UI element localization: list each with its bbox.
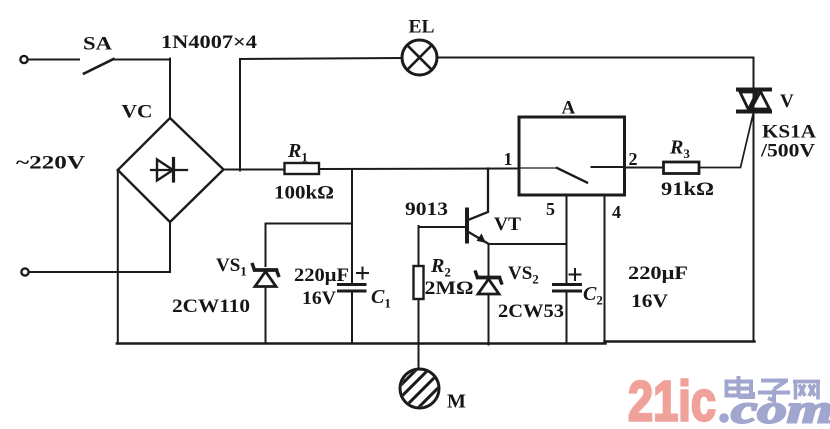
wire VS1 branch down (265, 224, 267, 267)
svg-text:/500V: /500V (760, 141, 815, 162)
svg-text:KS1A: KS1A (762, 122, 816, 143)
wire emitter to pin5 line (489, 243, 567, 245)
watermark com dot (719, 413, 729, 423)
svg-text:2: 2 (629, 149, 638, 169)
wire collector (467, 169, 488, 221)
wire R1 to relay pin1 (319, 168, 519, 171)
svg-text:16V: 16V (631, 291, 668, 312)
wire C2 bottom to bus (566, 292, 568, 344)
svg-text:2CW53: 2CW53 (498, 301, 564, 322)
relay fixed contact lead (592, 166, 624, 168)
watermark chinese 网 (793, 382, 820, 400)
bridge rectifier VC diamond (118, 118, 224, 222)
svg-text:9013: 9013 (405, 199, 448, 220)
svg-text:1: 1 (504, 149, 513, 169)
svg-text:2CW110: 2CW110 (172, 296, 250, 317)
svg-text:EL: EL (409, 17, 435, 38)
wire riser to lamp (240, 58, 402, 59)
wire switch to corner (114, 59, 171, 61)
emitter with arrow (467, 231, 489, 244)
watermark chinese 子 (758, 381, 790, 401)
resistor R1 (285, 163, 320, 174)
wire thyristor cathode down (753, 113, 755, 342)
C1 plus sign (357, 268, 368, 279)
wire EL riser (239, 59, 241, 171)
svg-text:SA: SA (83, 34, 112, 55)
wire emitter down through VS2 (488, 244, 490, 276)
bus right segment (605, 340, 755, 342)
svg-text:16V: 16V (302, 288, 336, 309)
C2 plus sign (570, 269, 581, 280)
relay contact blade (557, 168, 587, 183)
svg-text:VT: VT (494, 214, 521, 235)
resistor R3 (664, 162, 700, 174)
wire lamp to thyristor (438, 58, 754, 89)
wire base (419, 226, 466, 228)
svg-text:~220V: ~220V (16, 153, 85, 174)
svg-text:V: V (780, 91, 794, 112)
switch SA blade (84, 59, 114, 74)
svg-text:M: M (447, 391, 466, 413)
capacitor C1 plates (339, 285, 366, 292)
wire relay pin5 down to C2 top (566, 195, 568, 284)
svg-text:21ic: 21ic (628, 370, 716, 425)
svg-text:91kΩ: 91kΩ (661, 179, 714, 200)
wire down to bridge top (169, 59, 171, 120)
wire VS2 to bus (488, 294, 490, 345)
capacitor C2 plates (554, 285, 581, 292)
lamp EL (402, 40, 437, 75)
wire bridge left vertex down to bus (117, 170, 119, 344)
wire VS1 to bus (265, 287, 267, 344)
wire T1 to switch (29, 59, 80, 61)
watermark chinese 电 (727, 376, 754, 397)
terminal T2 (lower AC input) (21, 268, 28, 275)
svg-text:A: A (562, 98, 576, 119)
svg-text:com: com (731, 387, 830, 425)
wire relay pin2 to R3 (625, 167, 664, 169)
wire gate of thyristor (699, 115, 753, 168)
wire bridge right vertex to R1 (224, 169, 285, 171)
transistor VT base bar (465, 210, 469, 242)
wire R1 node down to C1 (351, 170, 353, 285)
svg-text:VC: VC (122, 102, 153, 123)
svg-text:1N4007×4: 1N4007×4 (161, 32, 258, 53)
relay contact common lead (520, 167, 557, 169)
wire C1 node to VS1 branch (266, 223, 353, 225)
wire C1 bottom to bus (351, 292, 353, 344)
zener diode VS2 (476, 272, 502, 294)
svg-text:100kΩ: 100kΩ (274, 183, 334, 204)
relay A box (519, 117, 625, 195)
wire relay pin4 down to bus (604, 195, 606, 342)
resistor R2 (414, 266, 424, 299)
bridge diode symbol (151, 159, 187, 182)
bottom bus wire (117, 342, 606, 344)
svg-text:2MΩ: 2MΩ (425, 278, 474, 299)
zener diode VS1 (253, 265, 279, 287)
svg-text:5: 5 (546, 199, 555, 219)
wire R2 to motor (418, 299, 420, 370)
svg-text:220μF: 220μF (294, 265, 349, 286)
motor M (hatched circle) (396, 362, 446, 418)
wire bridge bottom vertex down (169, 222, 171, 272)
wire T2 to bridge (30, 271, 171, 273)
svg-text:4: 4 (612, 202, 621, 222)
terminal T1 (upper AC input) (20, 56, 27, 63)
thyristor V (triac symbol) (738, 90, 770, 112)
svg-text:220μF: 220μF (628, 263, 688, 284)
wire base node down to R2 (418, 226, 420, 266)
